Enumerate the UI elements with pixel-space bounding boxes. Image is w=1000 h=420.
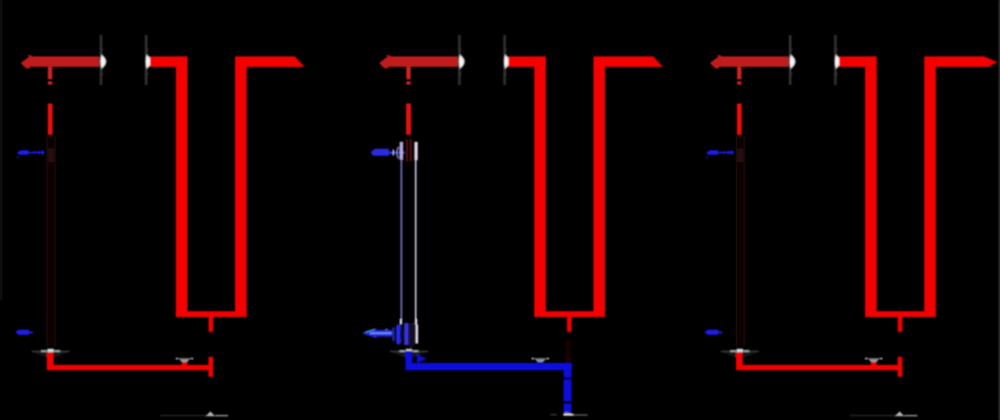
flexible hose right line (diagram 2) — [415, 160, 417, 324]
cold feed arrow at tundish (diagram 3) — [705, 330, 723, 335]
hose coupling at tundish (diagram 2) — [385, 323, 418, 347]
isolation valve V1 (diagram 3) — [789, 35, 796, 85]
left frame line — [1, 0, 2, 300]
red heat-trap loop pipe (diagram 2) — [508, 56, 605, 331]
hose union flange right (diagram 2) — [414, 142, 417, 160]
dark red remnant above blue pipe (diagram 2) — [566, 340, 571, 363]
outlet pipe to fixtures (diagram 3) — [936, 56, 998, 67]
warm outlet arrow left (diagram 2) — [362, 328, 392, 338]
hot supply pipe with flow arrow (diagram 3) — [710, 55, 789, 68]
empty pipe outline (dark) down to tundish (diagram 3) — [736, 136, 745, 347]
right frame line — [999, 0, 1000, 420]
isolation valve V2 (diagram 2) — [503, 35, 510, 85]
open funnel on drain pipe (diagram 1) — [176, 358, 193, 365]
floor drain symbol (diagram 3) — [850, 411, 918, 416]
isolation valve V1 (diagram 2) — [458, 35, 465, 85]
outlet pipe to fixtures (diagram 2) — [605, 56, 663, 67]
outlet pipe to fixtures (diagram 1) — [247, 56, 305, 67]
red drain pipe run (diagram 3) — [736, 352, 902, 376]
red drain pipe run (diagram 1) — [47, 352, 213, 376]
hose end fitting highlights (diagram 2) — [400, 319, 417, 325]
floor drain symbol (diagram 1) — [160, 411, 228, 416]
cold water connection arrow (dashed) (diagram 3) — [706, 150, 734, 158]
cold feed arrow at tundish (diagram 1) — [15, 330, 33, 335]
cold water connection arrow (dashed) (diagram 1) — [17, 150, 45, 158]
hot supply pipe with flow arrow (diagram 2) — [379, 55, 458, 68]
red dashed branch below supply (diagram 2) — [406, 67, 411, 135]
open funnel on drain pipe (diagram 3) — [865, 358, 882, 365]
tundish / air-gap funnel (diagram 3) — [721, 349, 759, 358]
red dashed line through union (diagram 2) — [406, 139, 412, 162]
blue drain vertical with joints (diagram 2) — [564, 370, 572, 414]
isolation valve V1 (diagram 1) — [99, 35, 106, 85]
empty pipe outline (dark) down to tundish (diagram 1) — [46, 136, 55, 347]
tundish / air-gap funnel (diagram 2) — [390, 349, 428, 358]
isolation valve V2 (diagram 1) — [145, 35, 152, 85]
red heat-trap loop pipe (diagram 1) — [150, 56, 247, 331]
flexible hose left line (diagram 2) — [401, 161, 403, 325]
red heat-trap loop pipe (diagram 3) — [839, 56, 936, 331]
isolation valve V2 (diagram 3) — [834, 35, 841, 85]
red dashed branch below supply (diagram 3) — [737, 67, 742, 135]
blue tundish drain pipe (diagram 2) — [405, 351, 571, 370]
hose union flange left (diagram 2) — [400, 142, 403, 160]
discharge point symbol (diagram 2) — [550, 412, 587, 416]
blue cold-feed arrow into hose union (diagram 2) — [371, 147, 405, 159]
hot supply pipe with flow arrow (diagram 1) — [21, 55, 100, 68]
tundish / air-gap funnel (diagram 1) — [32, 349, 70, 358]
red dashed branch below supply (diagram 1) — [48, 67, 53, 135]
open funnel on drain pipe (diagram 2) — [532, 358, 549, 365]
